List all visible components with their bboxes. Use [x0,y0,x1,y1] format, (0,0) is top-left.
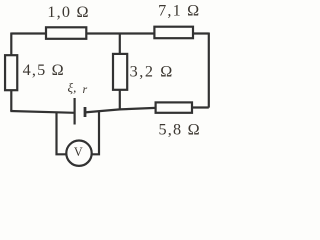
svg-text:4,5 Ω: 4,5 Ω [23,61,65,79]
resistor R2 7,1 Ω [154,27,193,39]
wire left vertical [10,33,12,112]
battery short plate [84,107,87,117]
wire voltmeter left [57,112,67,154]
svg-text:V: V [74,145,83,159]
wire bottom right [85,108,209,113]
svg-text:5,8 Ω: 5,8 Ω [159,120,201,138]
svg-text:r: r [83,82,88,96]
resistor R4 3,2 Ω [113,54,127,90]
svg-text:3,2 Ω: 3,2 Ω [130,62,174,80]
svg-text:ξ,: ξ, [68,80,77,95]
wire voltmeter right [92,111,100,155]
battery long plate [73,98,75,125]
wire bottom left [10,111,74,113]
wire right vertical [208,33,210,108]
voltmeter V circle [66,141,91,166]
resistor R1 1,0 Ω [46,27,86,39]
svg-text:1,0 Ω: 1,0 Ω [47,3,89,21]
resistor R5 5,8 Ω [156,102,192,112]
wire top horizontal [11,32,209,34]
wire middle vertical [119,34,121,110]
resistor R3 4,5 Ω [5,55,17,90]
svg-text:7,1 Ω: 7,1 Ω [158,2,200,20]
